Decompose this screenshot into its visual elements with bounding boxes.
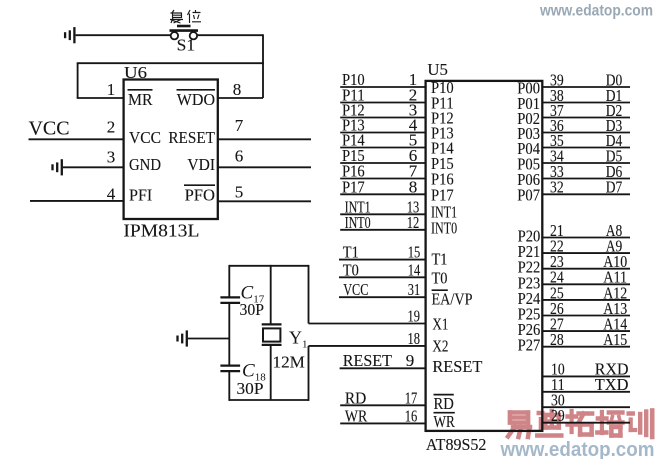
svg-text:GND: GND (129, 155, 161, 174)
svg-text:7: 7 (235, 116, 244, 135)
svg-text:www.edatop.com: www.edatop.com (539, 3, 653, 20)
svg-text:T1: T1 (343, 243, 359, 262)
wire P02 pin 37 to D2 (542, 117, 630, 119)
ground (reset switch) (65, 27, 74, 43)
svg-text:RESET: RESET (168, 128, 215, 147)
wire ground to riser (188, 338, 229, 340)
wire RESET pin 9 (340, 367, 426, 369)
svg-text:VCC: VCC (343, 280, 368, 299)
svg-text:P17: P17 (342, 178, 365, 197)
wire P01 pin 38 to D1 (542, 102, 630, 104)
switch S1 contact circle right (190, 32, 197, 39)
wire P03 pin 36 to D3 (542, 132, 630, 134)
crystal Y1 (262, 324, 282, 345)
svg-text:6: 6 (235, 147, 244, 166)
wire P26 pin 27 to A14 (542, 330, 630, 332)
svg-text:MR: MR (128, 90, 153, 109)
svg-text:P27: P27 (518, 336, 541, 355)
svg-text:2: 2 (107, 117, 116, 136)
svg-text:RD: RD (434, 394, 454, 413)
svg-text:17: 17 (405, 388, 418, 407)
wire left riser middle (228, 303, 230, 365)
svg-text:WDO: WDO (177, 90, 215, 109)
svg-text:15: 15 (408, 243, 421, 262)
svg-text:RESET: RESET (343, 351, 393, 370)
svg-text:RD: RD (345, 388, 366, 407)
wire U6 pin7 RESET (218, 138, 311, 140)
svg-text:VCC: VCC (29, 118, 70, 140)
pin name MR with overline (128, 90, 154, 109)
svg-text:P17: P17 (431, 185, 454, 204)
wire P21 pin 22 to A9 (542, 252, 630, 254)
svg-text:T0: T0 (432, 269, 448, 288)
pin name WR with overline (434, 412, 456, 431)
svg-text:PFI: PFI (129, 186, 153, 205)
wire P25 pin 26 to A13 (542, 315, 630, 317)
wire S1 to riser (197, 34, 263, 36)
wire right riser upper (to X1) (308, 265, 310, 324)
wire P10 pin 1 (340, 86, 425, 88)
wire U6 pin4 PFI (30, 200, 124, 202)
svg-text:12: 12 (407, 213, 420, 232)
wire P23 pin 24 to A11 (542, 283, 630, 285)
wire right riser lower (to X2) (308, 346, 310, 401)
pin name PFO with overline (184, 185, 215, 204)
pin name WDO with overline (177, 90, 216, 109)
svg-text:1: 1 (107, 80, 116, 99)
svg-text:D7: D7 (606, 178, 623, 197)
svg-text:X2: X2 (432, 337, 448, 356)
wire U6 pin1 MR (77, 97, 124, 99)
svg-text:16: 16 (405, 406, 418, 425)
wire P13 pin 4 (340, 132, 425, 134)
svg-text:12M: 12M (273, 353, 305, 372)
wire P17 pin 8 (340, 193, 425, 195)
svg-text:INT0: INT0 (345, 213, 371, 232)
svg-text:32: 32 (550, 178, 564, 197)
svg-text:8: 8 (409, 178, 418, 197)
svg-text:WR: WR (345, 406, 368, 425)
svg-text:S1: S1 (177, 36, 196, 55)
wire pin 30 (542, 406, 630, 408)
svg-text:9: 9 (406, 351, 415, 370)
wire TXD pin 11 (542, 391, 630, 393)
wire crystal bottom rail (229, 399, 308, 401)
wire P05 pin 34 to D5 (542, 162, 630, 164)
pin name EA/VP with overline (432, 290, 473, 309)
switch S1 actuator bar (170, 29, 199, 32)
wire RXD pin 10 (542, 375, 630, 377)
svg-text:P07: P07 (517, 186, 540, 205)
svg-text:INT0: INT0 (431, 218, 457, 237)
wire X1 (309, 323, 426, 325)
svg-text:EA/VP: EA/VP (432, 290, 473, 309)
wire P22 pin 23 to A10 (542, 268, 630, 270)
switch S1 actuator stem bar (177, 25, 191, 28)
wire INT0 pin 12 (340, 229, 425, 231)
wire VCC pin 31 (339, 296, 426, 298)
svg-text:AT89S52: AT89S52 (426, 435, 487, 454)
wire P11 pin 2 (340, 102, 425, 104)
svg-text:T1: T1 (432, 250, 448, 269)
svg-text:U5: U5 (427, 60, 448, 79)
wire U6 pin2 VCC (29, 138, 124, 140)
wire U6 pin8 WDO (218, 97, 263, 99)
wire pin 29 (542, 422, 630, 424)
wire P15 pin 6 (340, 162, 425, 164)
wire WR pin 16 (340, 422, 425, 424)
wire P16 pin 7 (340, 178, 425, 180)
wire T1 pin 15 (339, 259, 426, 261)
wire U6 pin6 VDI (218, 166, 311, 168)
svg-text:30P: 30P (237, 379, 264, 398)
svg-text:VCC: VCC (129, 128, 161, 147)
wire MR loop horizontal (77, 62, 264, 64)
label 复位 (reset) (170, 10, 201, 23)
wire left riser lower (228, 371, 230, 401)
svg-text:5: 5 (235, 183, 244, 202)
watermark logo 易迪拓培训 www.edatop.com (500, 411, 655, 459)
op-amp U6 IPM813L body (124, 80, 218, 220)
wire P14 pin 5 (340, 147, 425, 149)
svg-text:18: 18 (408, 329, 421, 348)
svg-text:19: 19 (408, 307, 421, 326)
wire left riser upper (228, 265, 230, 297)
wire P20 pin 21 to A8 (542, 237, 630, 239)
svg-text:www.edatop.com: www.edatop.com (500, 438, 655, 459)
svg-text:WR: WR (434, 412, 456, 431)
wire P00 pin 39 to D0 (542, 86, 630, 88)
svg-text:8: 8 (233, 80, 242, 99)
wire P12 pin 3 (340, 117, 425, 119)
wire P06 pin 33 to D6 (542, 178, 630, 180)
wire X2 (309, 345, 426, 347)
ground (crystal) (178, 330, 187, 346)
svg-text:PFO: PFO (185, 186, 215, 205)
microcontroller U5 AT89S52 body (426, 81, 543, 431)
wire T0 pin 14 (339, 276, 426, 278)
wire crystal branch lower (270, 345, 272, 400)
wire P07 pin 32 to D7 (542, 193, 630, 195)
capacitor C17 (220, 297, 240, 303)
svg-text:U6: U6 (124, 63, 147, 82)
svg-text:RESET: RESET (432, 357, 483, 376)
svg-text:31: 31 (408, 280, 421, 299)
wire riser to U6 pin8 row (262, 34, 264, 98)
svg-text:29: 29 (551, 406, 565, 425)
svg-text:4: 4 (107, 185, 116, 204)
svg-text:14: 14 (408, 260, 421, 279)
svg-text:T0: T0 (343, 260, 359, 279)
wire crystal branch upper (270, 265, 272, 325)
wire U6 pin3 GND (63, 166, 124, 168)
wire INT1 pin 13 (340, 213, 425, 215)
wire U6 pin5 PFO (218, 200, 311, 202)
svg-text:3: 3 (107, 147, 116, 166)
svg-text:28: 28 (550, 330, 564, 349)
wire P24 pin 25 to A12 (542, 299, 630, 301)
svg-text:X1: X1 (432, 315, 448, 334)
switch S1 contact circle left (171, 32, 178, 39)
svg-text:TXD: TXD (595, 375, 629, 394)
pin name RD with overline (434, 394, 454, 413)
svg-text:IPM813L: IPM813L (123, 221, 199, 241)
capacitor C18 (220, 366, 240, 372)
wire ground to S1 (76, 34, 171, 36)
wire crystal top rail (229, 265, 308, 267)
wire MR loop vertical (77, 63, 79, 98)
svg-text:VDI: VDI (187, 155, 215, 174)
ground (U6 GND pin) (53, 159, 62, 175)
svg-text:30P: 30P (240, 300, 265, 319)
wire P27 pin 28 to A15 (542, 346, 630, 348)
wire RD pin 17 (340, 404, 425, 406)
wire P04 pin 35 to D4 (542, 147, 630, 149)
svg-text:A15: A15 (603, 330, 627, 349)
